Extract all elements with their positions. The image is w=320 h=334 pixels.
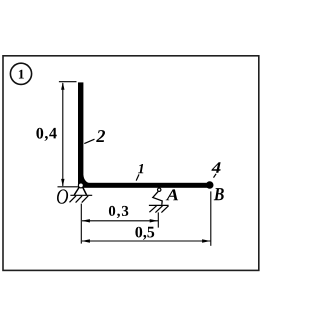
corner fillet at O	[82, 175, 91, 184]
dimension text 0,4	[36, 128, 56, 141]
dimension text 0,3	[109, 206, 128, 218]
figure border frame	[3, 56, 259, 271]
dimension 0,4: bottom extension tick	[58, 186, 79, 188]
pin support at O: hatching	[70, 196, 89, 203]
member label 1	[138, 164, 143, 173]
node label A	[166, 189, 179, 200]
roller support at A: circle	[158, 188, 161, 191]
pin support at O: ground line	[70, 194, 92, 196]
node label B	[214, 188, 224, 200]
extension line below A	[157, 212, 159, 227]
roller support at A: hatching	[149, 206, 168, 213]
dimension 0,5: line with arrows	[82, 239, 211, 242]
figure number circle 1	[10, 63, 31, 84]
point label 4	[211, 162, 220, 173]
dimension 0,4: top extension tick	[59, 81, 77, 83]
roller support at A: ground line	[149, 204, 169, 206]
member label 1 leader	[136, 174, 139, 180]
end dot at B	[206, 181, 214, 189]
dimension text 0,5	[135, 227, 154, 240]
member label 2 leader	[84, 139, 94, 143]
dimension 0,3: line with arrows	[82, 219, 158, 222]
extension line below O	[80, 204, 82, 244]
dimension 0,4: vertical line with arrows	[61, 82, 64, 186]
roller support at A: link zigzag	[153, 191, 162, 204]
horizontal bar (member 1)	[78, 183, 209, 188]
pin circle at O	[78, 183, 83, 188]
pin support at O: triangle legs	[74, 187, 86, 195]
node label O	[57, 189, 68, 203]
extension line below B	[210, 191, 212, 245]
member label 2	[96, 130, 105, 142]
vertical bar (member 2)	[78, 82, 83, 187]
point label 4 leader	[214, 174, 217, 178]
